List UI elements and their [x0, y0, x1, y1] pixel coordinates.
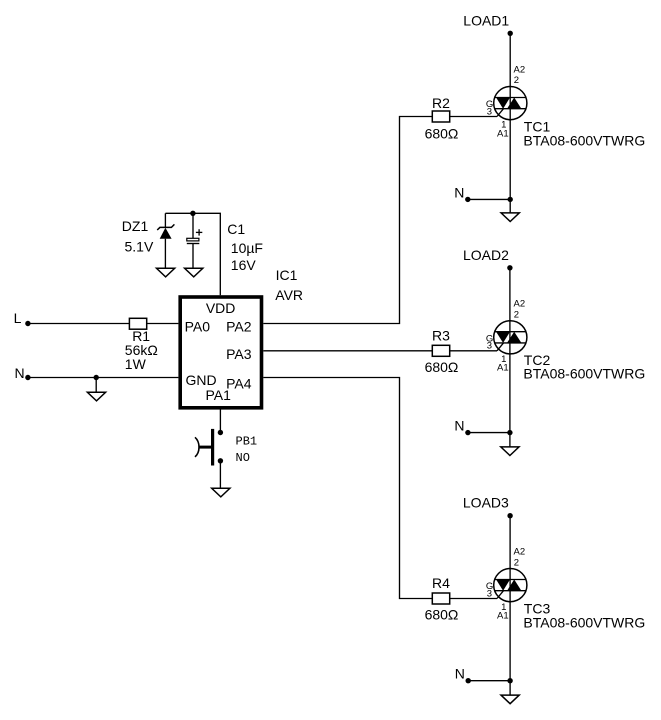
wire ground stub TC3 [509, 681, 511, 695]
wire PA2 net [263, 117, 432, 324]
node L dot [25, 321, 30, 326]
svg-text:3: 3 [487, 341, 492, 352]
svg-text:PA0: PA0 [185, 319, 211, 335]
svg-text:R3: R3 [432, 328, 450, 344]
wire PB1 net [219, 408, 221, 433]
svg-text:A2: A2 [514, 546, 526, 557]
svg-text:R4: R4 [432, 575, 450, 591]
svg-text:C1: C1 [227, 221, 245, 237]
wire top rail DZ1/C1 to VDD [165, 213, 220, 295]
svg-text:10µF: 10µF [231, 240, 263, 256]
svg-text:LOAD1: LOAD1 [463, 12, 509, 28]
svg-text:A1: A1 [497, 610, 509, 621]
svg-text:3: 3 [487, 106, 492, 117]
svg-text:GND: GND [186, 372, 217, 388]
resistor R2 [432, 111, 449, 122]
svg-text:R2: R2 [432, 95, 450, 111]
wire PA4 net [263, 378, 432, 599]
svg-text:A2: A2 [514, 64, 526, 75]
svg-text:1W: 1W [125, 356, 147, 372]
svg-text:680Ω: 680Ω [425, 359, 459, 375]
ground under C1 [185, 268, 203, 277]
svg-text:DZ1: DZ1 [122, 218, 149, 234]
svg-text:PA2: PA2 [226, 319, 252, 335]
svg-text:3: 3 [487, 588, 492, 599]
svg-text:A1: A1 [497, 128, 509, 139]
svg-text:A2: A2 [514, 299, 526, 310]
svg-text:BTA08-600VTWRG: BTA08-600VTWRG [523, 614, 645, 630]
wire LOAD3 to N [509, 516, 511, 681]
node N dot left [25, 375, 30, 380]
ground under N row [87, 392, 105, 401]
svg-text:LOAD3: LOAD3 [463, 495, 509, 511]
svg-text:NO: NO [236, 451, 250, 465]
triac TC1 [494, 87, 527, 120]
ground under TC1 [501, 213, 519, 222]
svg-text:2: 2 [514, 75, 519, 86]
resistor R1 [129, 318, 146, 329]
wire LOAD1 to N [509, 33, 511, 199]
IC U1 box [180, 297, 261, 408]
svg-text:2: 2 [514, 557, 519, 568]
svg-text:PA3: PA3 [226, 346, 252, 362]
svg-text:BTA08-600VTWRG: BTA08-600VTWRG [523, 132, 645, 148]
svg-text:2: 2 [514, 310, 519, 321]
wire ground stub [95, 378, 97, 393]
svg-text:16V: 16V [231, 257, 257, 273]
wire N row TC3 [468, 680, 510, 682]
capacitor C1 [192, 213, 194, 238]
resistor R4 [432, 593, 449, 604]
wire ground stub TC2 [509, 433, 511, 447]
svg-text:LOAD2: LOAD2 [463, 247, 509, 263]
junction at C1 top [190, 211, 195, 216]
svg-text:N: N [454, 417, 464, 433]
wire L row [28, 323, 179, 325]
svg-text:680Ω: 680Ω [425, 125, 459, 141]
svg-text:L: L [14, 310, 22, 326]
pushbutton PB1 [218, 430, 223, 435]
wire N row TC1 [468, 198, 510, 200]
triac TC3 [494, 569, 527, 602]
ground under DZ1 [157, 268, 175, 277]
svg-text:BTA08-600VTWRG: BTA08-600VTWRG [523, 366, 645, 382]
svg-text:5.1V: 5.1V [125, 238, 154, 254]
ground under TC3 [501, 695, 519, 704]
svg-text:PA1: PA1 [205, 387, 231, 403]
zener diode DZ1 [164, 213, 166, 227]
wire LOAD2 to N [509, 268, 511, 433]
svg-text:AVR: AVR [275, 287, 303, 303]
resistor R3 [432, 345, 449, 356]
svg-text:N: N [454, 184, 464, 200]
svg-text:A1: A1 [497, 363, 509, 374]
ground under PB1 [212, 488, 230, 497]
wire N row TC2 [468, 432, 510, 434]
junction on N row [94, 375, 99, 380]
svg-text:N: N [15, 365, 25, 381]
ground under TC2 [501, 447, 519, 456]
svg-text:IC1: IC1 [276, 267, 298, 283]
svg-text:PB1: PB1 [236, 434, 258, 448]
svg-text:VDD: VDD [206, 300, 236, 316]
svg-text:680Ω: 680Ω [425, 607, 459, 623]
wire PA3 net [263, 350, 432, 352]
svg-text:N: N [455, 666, 465, 682]
triac TC2 [494, 321, 527, 354]
wire ground stub TC1 [509, 199, 511, 213]
wire N row left [28, 377, 179, 379]
